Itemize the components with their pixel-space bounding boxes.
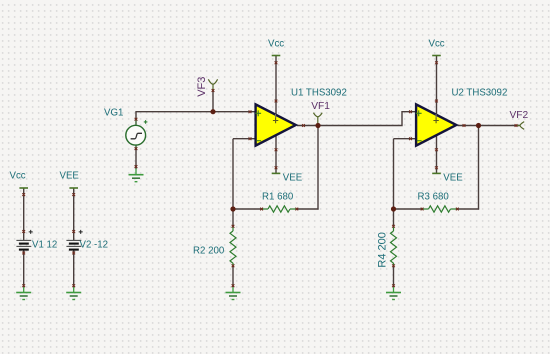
- ground below R2: [226, 287, 241, 300]
- op-amp U1: [255, 104, 295, 145]
- wire battery V1 bottom: [23, 251, 25, 288]
- wire U1 VEE rail: [275, 132, 277, 173]
- power jumper Vcc U1: [272, 55, 281, 57]
- wire U2 inverting input: [394, 138, 417, 140]
- svg-text:VEE: VEE: [443, 172, 463, 183]
- power jumper VEE U1: [272, 172, 281, 174]
- probe VF1: [313, 113, 322, 123]
- junction node VF3: [210, 109, 215, 114]
- svg-text:Vcc: Vcc: [268, 38, 284, 49]
- wire feedback left vertical U1: [232, 139, 234, 210]
- wire VG1 top stub: [135, 112, 137, 125]
- probe VF3: [208, 79, 217, 89]
- wire feedback right vertical U1: [317, 126, 319, 210]
- svg-text:U1 THS3092: U1 THS3092: [291, 87, 347, 98]
- wire U1 output to U2 noninverting input: [318, 112, 416, 126]
- wire U2 Vcc rail: [436, 56, 438, 118]
- wire R1 right to output node: [297, 208, 319, 210]
- wire battery V2 bottom: [73, 251, 75, 288]
- resistor R2: [230, 227, 236, 266]
- svg-text:Vcc: Vcc: [429, 38, 445, 49]
- svg-text:VF2: VF2: [510, 110, 529, 121]
- resistor R3: [423, 206, 458, 212]
- wire battery V2 top: [73, 188, 75, 240]
- wire U1 Vcc rail: [275, 56, 277, 118]
- svg-text:V1 12: V1 12: [32, 240, 57, 251]
- svg-text:VF1: VF1: [311, 101, 330, 112]
- ground below battery V1: [16, 287, 31, 300]
- battery V1: [16, 230, 32, 250]
- power jumper VEE U2: [432, 172, 441, 174]
- ground below battery V2: [66, 287, 81, 300]
- wire feedback left vertical U2: [393, 139, 395, 210]
- wire R4 bottom to ground: [393, 266, 395, 287]
- svg-text:VEE: VEE: [60, 171, 80, 182]
- svg-text:VG1: VG1: [104, 108, 123, 119]
- op-amp U2: [416, 104, 457, 145]
- svg-text:VF3: VF3: [196, 77, 208, 97]
- junction node VF1: [315, 123, 320, 128]
- svg-text:U2 THS3092: U2 THS3092: [452, 87, 508, 98]
- wire U2 output to probe VF2: [479, 125, 520, 127]
- wire node A1 to R2 top: [232, 209, 234, 227]
- wire VG1 to U1 noninverting input: [135, 111, 255, 113]
- wire node A1 to R1 left: [233, 208, 262, 210]
- ground below R4: [386, 287, 401, 300]
- svg-text:VEE: VEE: [283, 172, 303, 183]
- junction node A1: [230, 206, 235, 211]
- resistor R4: [391, 227, 397, 266]
- svg-text:R4 200: R4 200: [376, 232, 388, 267]
- svg-text:R1 680: R1 680: [262, 191, 294, 202]
- wire U1 inverting input: [233, 138, 256, 140]
- pin marks: [22, 61, 517, 287]
- wire R3 right to output vertical: [457, 208, 479, 210]
- svg-text:R3 680: R3 680: [418, 191, 450, 202]
- junction node VF2: [476, 123, 481, 128]
- wire U2 output stub: [458, 125, 479, 127]
- battery V2: [66, 230, 82, 250]
- junction node A2: [391, 206, 396, 211]
- wire battery V1 top: [23, 188, 25, 240]
- svg-text:V2 -12: V2 -12: [80, 240, 109, 251]
- wire U2 VEE rail: [436, 132, 438, 173]
- power jumper VEE (battery V2): [69, 187, 78, 189]
- wire node A2 to R3 left: [394, 208, 423, 210]
- wire R2 bottom to ground: [232, 266, 234, 287]
- probe VF2: [517, 122, 524, 130]
- wire U1 output stub: [297, 125, 318, 127]
- wire output node to feedback U2: [478, 126, 480, 210]
- power jumper Vcc (battery V1): [19, 187, 28, 189]
- wire VG1 bottom stub: [135, 145, 137, 169]
- wire node A2 to R4 top: [393, 209, 395, 227]
- wire probe VF3 stub: [212, 90, 214, 112]
- voltage source VG1: [126, 120, 148, 150]
- ground below VG1: [129, 169, 144, 182]
- svg-text:R2 200: R2 200: [193, 246, 225, 257]
- svg-text:Vcc: Vcc: [10, 170, 26, 181]
- resistor R1: [262, 206, 297, 212]
- power jumper Vcc U2: [432, 55, 441, 57]
